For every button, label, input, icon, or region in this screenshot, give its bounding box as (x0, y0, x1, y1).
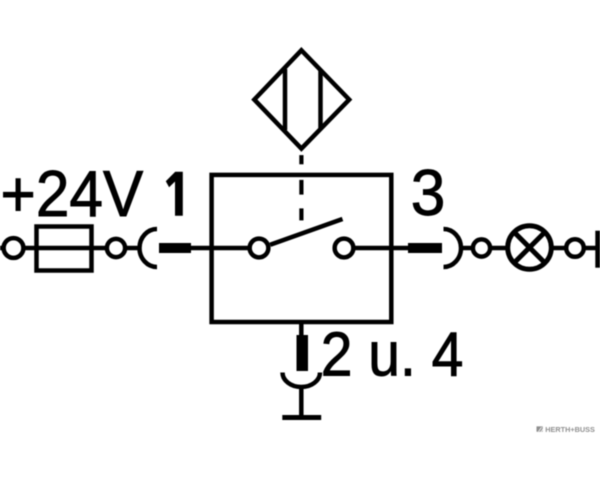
connector socket bottom (pins 2 and 4, harness side) (283, 373, 321, 388)
svg-text:2 u. 4: 2 u. 4 (321, 319, 464, 389)
wire terminal to end bar (584, 246, 596, 251)
wire box left interior (212, 246, 251, 251)
terminal circle 3 (473, 239, 490, 256)
connector pin 2u4 (male blade) (297, 335, 309, 371)
wire terminal to socket (125, 246, 140, 251)
connector socket left (pin 1, harness side) (140, 229, 158, 267)
wire box to pin 3 (391, 246, 410, 251)
lamp E1 (508, 226, 552, 270)
connector pin 1 (male blade) (159, 243, 191, 253)
connector socket right (pin 3, harness side) (444, 229, 462, 267)
wire box right interior (352, 246, 391, 251)
wire socket to ground (299, 386, 304, 416)
terminal circle 4 (566, 239, 584, 257)
end terminal bar (595, 231, 600, 268)
wire lamp to terminal (551, 246, 567, 251)
fuse F1 (37, 227, 92, 271)
ground bar (282, 415, 321, 420)
wire left stub (0, 246, 5, 251)
label pin 1 (166, 172, 182, 215)
terminal circle 2 (107, 239, 125, 257)
switch body box S1 (212, 175, 392, 322)
logo HERTH+BUSS (537, 425, 595, 434)
switch lever (270, 219, 342, 245)
svg-text:HERTH+BUSS: HERTH+BUSS (545, 425, 595, 434)
wire socket to terminal (461, 246, 473, 251)
svg-text:3: 3 (411, 158, 446, 229)
switch contact circle right (335, 239, 354, 258)
branch wire box bottom (299, 322, 304, 336)
terminal circle left (4, 238, 24, 258)
connector pin 3 (male blade) (408, 243, 442, 253)
switch contact circle left (250, 239, 269, 258)
svg-text:+24V: +24V (1, 158, 144, 230)
wire pin to box (191, 246, 212, 251)
illumination lamp symbol (diamond) (254, 50, 349, 148)
dashed link line to illumination lamp (299, 155, 303, 220)
wire from terminal to fuse (23, 246, 107, 251)
wire terminal to lamp (490, 246, 508, 251)
